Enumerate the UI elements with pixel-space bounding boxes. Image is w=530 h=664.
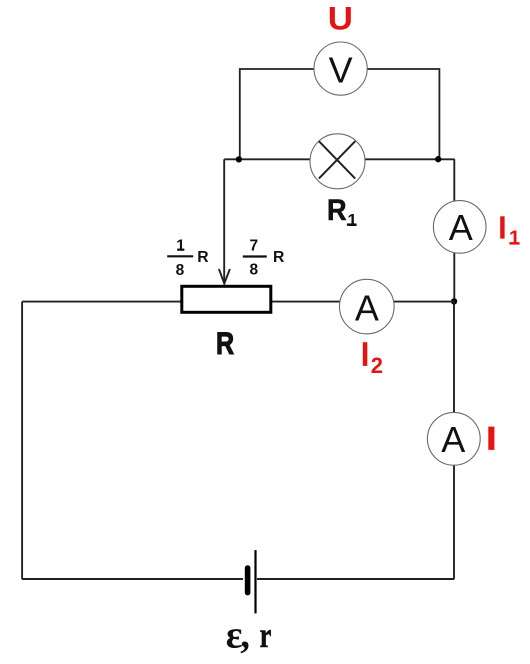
wire: wiper branch down to rheostat arrow <box>223 159 225 281</box>
label I2 (red) <box>363 342 368 366</box>
svg-text:8: 8 <box>249 261 258 278</box>
wire: left vertical side <box>21 302 23 580</box>
svg-text:1: 1 <box>176 238 185 255</box>
ammeter I1 <box>433 201 486 254</box>
label fraction 7/8 R (right of wiper) <box>243 237 285 278</box>
wire: right drop from lamp row to ammeter I1 and node C <box>453 159 455 301</box>
lamp R1 (circle with X) <box>310 134 365 189</box>
svg-text:7: 7 <box>249 237 258 254</box>
node A junction dot <box>236 156 242 162</box>
wire: right vertical down through ammeter I to battery <box>453 302 455 580</box>
node C junction dot <box>451 298 457 304</box>
battery negative plate (short thick) <box>245 568 251 593</box>
svg-text:R: R <box>273 249 284 266</box>
svg-text:A: A <box>441 419 465 460</box>
svg-text:A: A <box>449 207 473 248</box>
node B junction dot <box>435 156 441 162</box>
rheostat R body <box>182 286 271 312</box>
svg-text:R: R <box>216 325 234 361</box>
svg-text:2: 2 <box>371 353 383 378</box>
voltmeter U <box>314 42 367 95</box>
wire: voltmeter loop right (from V right terminal down to node B) <box>367 69 440 160</box>
svg-text:R: R <box>197 249 208 266</box>
svg-text:r: r <box>260 615 272 655</box>
arrowhead on rheostat wiper <box>219 269 230 284</box>
ammeter I <box>427 412 480 465</box>
svg-text:U: U <box>328 0 353 36</box>
wire: lamp branch horizontal (node A to node B row) <box>224 158 454 160</box>
wire: left lead to rheostat <box>22 301 181 303</box>
svg-text:R: R <box>327 194 347 227</box>
svg-text:8: 8 <box>176 262 185 279</box>
ammeter I2 <box>340 279 395 334</box>
wire: battery to bottom right <box>257 578 454 580</box>
svg-text:1: 1 <box>509 227 520 250</box>
label fraction 1/8 R (left of wiper) <box>167 238 208 279</box>
svg-text:1: 1 <box>347 210 357 230</box>
label I1 (red) <box>500 216 504 238</box>
label I (red) <box>488 427 494 450</box>
battery positive plate (long thin) <box>254 550 256 613</box>
svg-text:A: A <box>355 288 379 329</box>
wire: rheostat to ammeter I2 to node C <box>272 301 455 303</box>
svg-text:,: , <box>240 614 250 657</box>
svg-text:V: V <box>329 50 353 91</box>
wire: voltmeter loop left (from V left terminal down to node A) <box>240 69 315 160</box>
wire: bottom left to battery <box>22 578 243 580</box>
